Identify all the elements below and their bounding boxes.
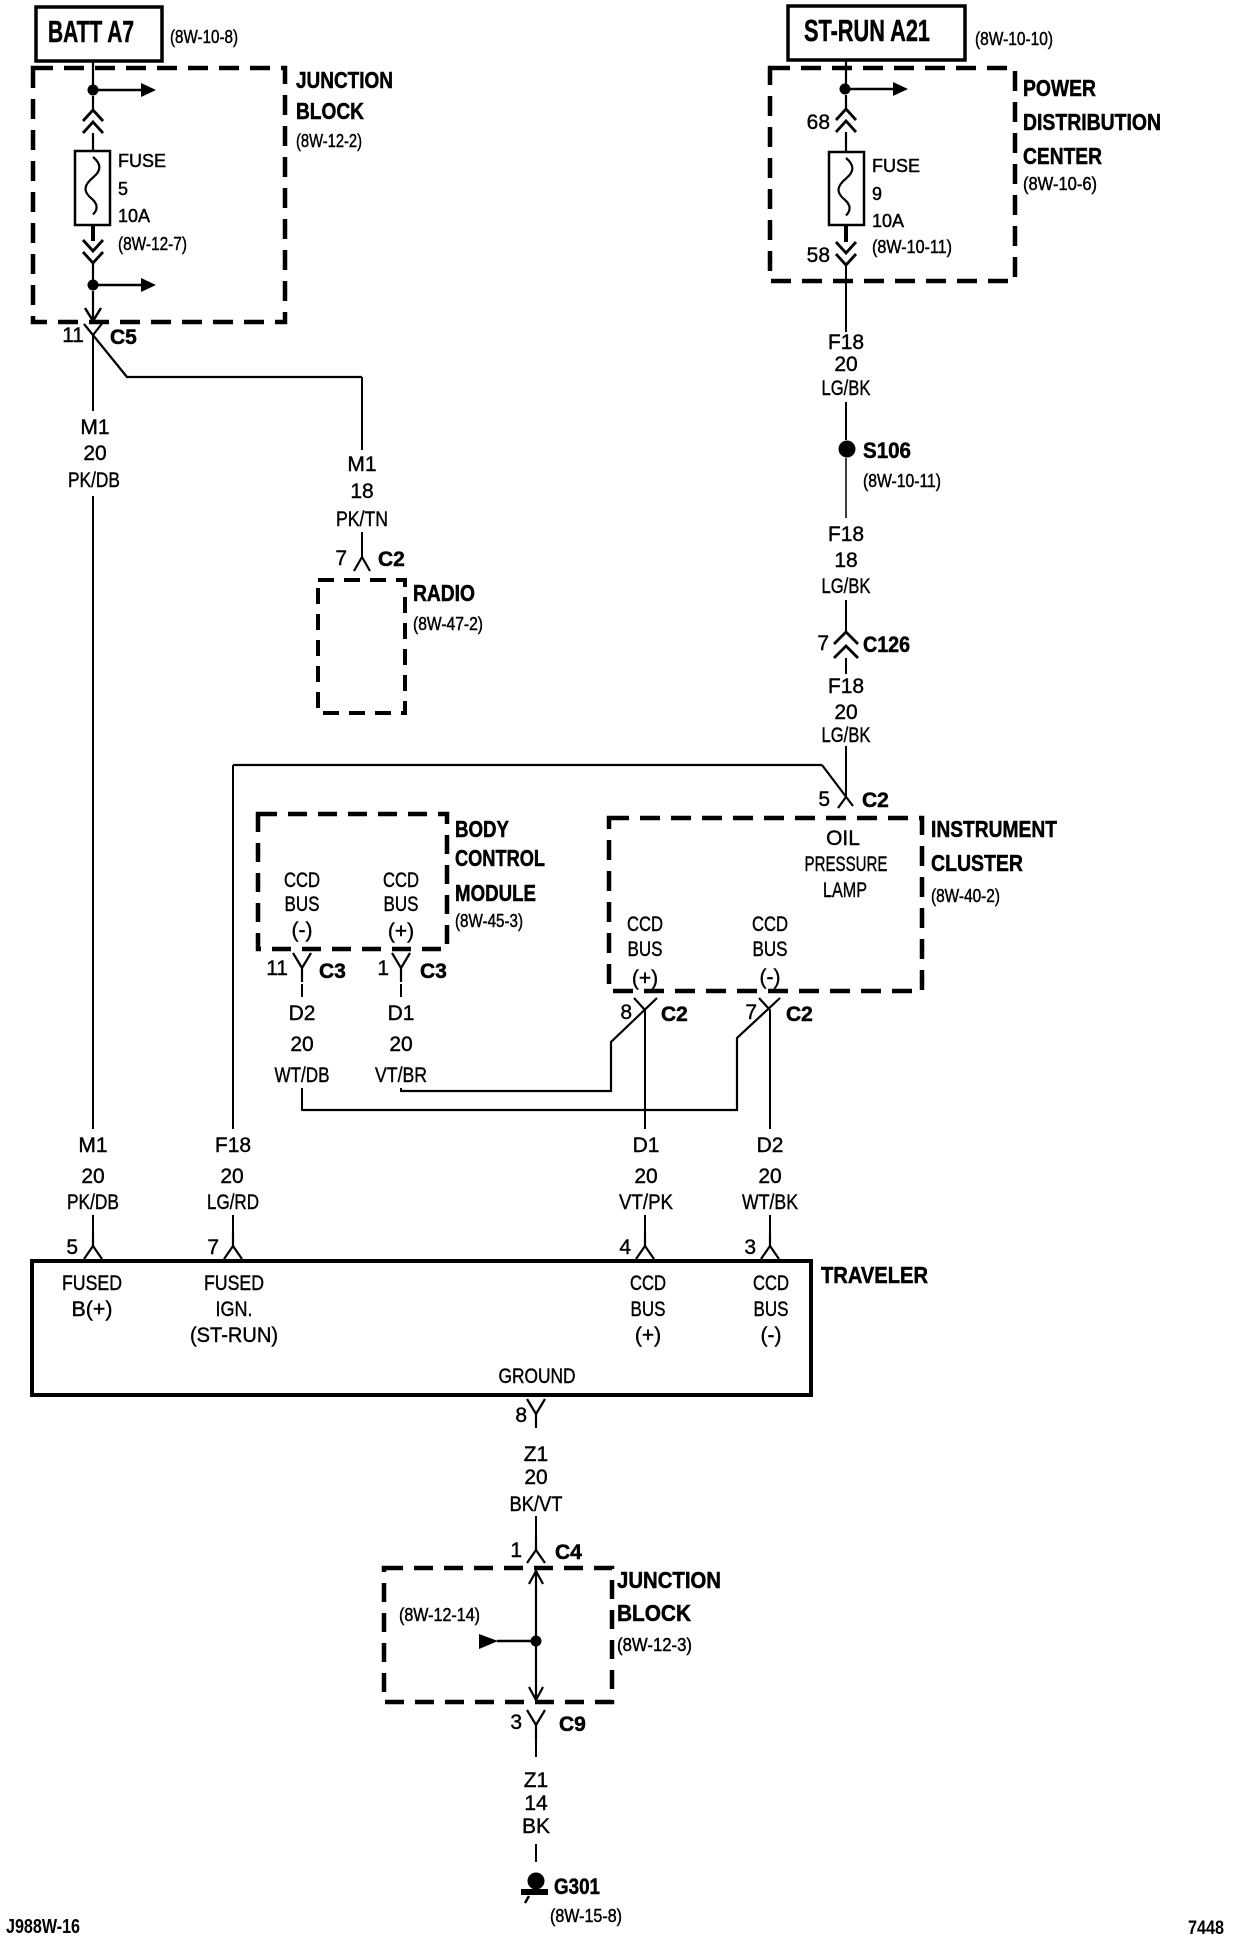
junction block (bottom) dashed outline: [384, 1568, 612, 1702]
wire: [845, 458, 847, 518]
body control module title: [455, 816, 545, 931]
svg-text:7: 7: [335, 547, 347, 570]
svg-text:CENTER: CENTER: [1023, 143, 1102, 169]
svg-text:C2: C2: [378, 548, 405, 571]
wire with exit arrowhead: [85, 291, 101, 321]
svg-text:20: 20: [634, 1165, 657, 1188]
svg-text:(8W-12-2): (8W-12-2): [296, 131, 362, 151]
svg-text:LG/BK: LG/BK: [822, 724, 871, 747]
wire from BATT A7 into junction block: [92, 61, 94, 85]
wire stubs below C3 pins: [301, 984, 303, 997]
svg-text:(8W-12-14): (8W-12-14): [399, 1605, 480, 1625]
wire: [535, 1738, 537, 1757]
connector chevrons (up): [836, 109, 856, 132]
svg-text:LG/RD: LG/RD: [207, 1191, 259, 1214]
wire F18 out of PDC: [845, 265, 847, 332]
svg-text:20: 20: [524, 1466, 547, 1489]
svg-text:CCD: CCD: [752, 913, 788, 936]
svg-text:20: 20: [83, 442, 106, 465]
svg-text:CCD: CCD: [627, 913, 663, 936]
BCM CCD BUS (+) label: [383, 869, 419, 943]
CCD bus wire (+): BCM pin1 to IC pin 8: [401, 998, 657, 1092]
svg-text:LG/BK: LG/BK: [822, 377, 871, 400]
svg-text:CCD: CCD: [753, 1272, 789, 1295]
svg-text:RADIO: RADIO: [413, 580, 475, 606]
wire stub + traveler pin 4: [619, 1215, 654, 1259]
wire: [361, 532, 363, 557]
svg-text:10A: 10A: [118, 206, 150, 226]
svg-text:58: 58: [807, 244, 830, 267]
wire label D2 20 WT/BK: [742, 1134, 798, 1214]
svg-text:PK/DB: PK/DB: [68, 469, 120, 492]
svg-text:BUS: BUS: [285, 893, 320, 916]
svg-text:BUS: BUS: [628, 938, 663, 961]
svg-text:F18: F18: [828, 675, 864, 698]
svg-text:5: 5: [818, 788, 830, 811]
wire stub + traveler pin 3: [744, 1215, 779, 1259]
svg-text:9: 9: [872, 184, 882, 204]
svg-text:BLOCK: BLOCK: [617, 1600, 691, 1626]
svg-text:(8W-10-10): (8W-10-10): [975, 29, 1053, 49]
svg-text:14: 14: [524, 1792, 548, 1815]
svg-text:20: 20: [389, 1033, 412, 1056]
wire: [845, 600, 847, 632]
radio dashed outline: [318, 580, 405, 713]
wire label Z1 14 BK: [522, 1769, 550, 1838]
junction node with feed arrow: [88, 83, 157, 97]
wire label Z1 20 BK/VT: [510, 1443, 563, 1516]
wire: [92, 96, 94, 111]
svg-text:11: 11: [266, 957, 288, 980]
wire label M1 18 PK/TN: [336, 453, 388, 531]
svg-text:CCD: CCD: [630, 1272, 666, 1295]
svg-text:JUNCTION: JUNCTION: [296, 67, 393, 93]
svg-text:BATT A7: BATT A7: [48, 14, 134, 49]
svg-text:INSTRUMENT: INSTRUMENT: [931, 816, 1057, 842]
svg-text:CCD: CCD: [383, 869, 419, 892]
wire label F18 20 LG/BK: [822, 331, 871, 400]
svg-text:PK/DB: PK/DB: [67, 1191, 119, 1214]
svg-text:J988W-16: J988W-16: [6, 1916, 80, 1938]
traveler FUSED B(+) label: [62, 1272, 122, 1321]
svg-text:(+): (+): [632, 967, 658, 990]
svg-text:MODULE: MODULE: [455, 880, 536, 906]
junction node with feed arrow: [88, 278, 157, 292]
ground G301: [521, 1873, 622, 1927]
svg-text:C2: C2: [786, 1003, 813, 1026]
radio title: [413, 580, 483, 634]
wire branch from C5 to radio: [126, 377, 362, 450]
body control module dashed outline: [258, 814, 447, 949]
svg-text:F18: F18: [215, 1134, 251, 1157]
wire: [92, 133, 94, 152]
power source box ST-RUN A21: [788, 6, 965, 60]
svg-text:G301: G301: [554, 1874, 600, 1899]
junction block (top) dashed outline: [33, 68, 285, 322]
svg-text:(8W-10-6): (8W-10-6): [1023, 174, 1097, 194]
wire D2 from C2 pin 7 down: [769, 1010, 771, 1129]
connector C2 pin 5 (instrument cluster): [818, 765, 889, 812]
svg-text:LAMP: LAMP: [823, 879, 867, 902]
svg-text:D1: D1: [633, 1134, 660, 1157]
IC CCD BUS (+) label: [627, 913, 663, 990]
junction node with feed arrow: [479, 1634, 542, 1649]
svg-text:20: 20: [81, 1165, 104, 1188]
svg-text:1: 1: [510, 1539, 522, 1562]
svg-text:FUSED: FUSED: [62, 1272, 122, 1295]
connector C3 pin 11: [266, 953, 346, 983]
down arrowhead: [529, 1687, 543, 1700]
svg-text:D2: D2: [289, 1002, 316, 1025]
junction block (bottom) title: [617, 1567, 721, 1655]
svg-text:C2: C2: [661, 1003, 688, 1026]
traveler box: [32, 1261, 811, 1395]
svg-text:(8W-15-8): (8W-15-8): [550, 1906, 622, 1926]
svg-text:18: 18: [350, 480, 373, 503]
svg-text:OIL: OIL: [826, 827, 860, 850]
svg-text:C9: C9: [559, 1713, 586, 1736]
svg-text:M1: M1: [80, 416, 109, 439]
svg-text:(-): (-): [761, 1324, 782, 1347]
thick stub below fuse: [844, 225, 848, 242]
connector C2 pin 7 (radio): [335, 547, 405, 571]
svg-text:CLUSTER: CLUSTER: [931, 850, 1023, 876]
fuse 5 symbol: [75, 151, 110, 225]
svg-text:3: 3: [510, 1711, 522, 1734]
svg-text:BK: BK: [522, 1815, 550, 1838]
svg-text:CCD: CCD: [284, 869, 320, 892]
wire label M1 20 PK/DB (upper): [68, 416, 120, 492]
svg-text:8: 8: [515, 1404, 527, 1427]
svg-text:(ST-RUN): (ST-RUN): [190, 1324, 278, 1347]
svg-text:BK/VT: BK/VT: [510, 1493, 563, 1516]
connector C2 pin 8: [620, 998, 688, 1026]
connector C3 pin 1: [377, 953, 447, 983]
wire: [845, 95, 847, 110]
wire from ST-RUN into PDC: [845, 60, 847, 84]
svg-text:M1: M1: [347, 453, 376, 476]
svg-text:7448: 7448: [1188, 1918, 1224, 1939]
connector chevrons (down): [836, 242, 856, 265]
svg-text:7: 7: [817, 632, 829, 655]
wire label D1 20 VT/PK: [619, 1134, 673, 1214]
junction node with feed arrow: [840, 82, 909, 96]
svg-text:FUSE: FUSE: [118, 151, 166, 171]
svg-text:F18: F18: [828, 523, 864, 546]
connector C9 pin 3: [510, 1710, 586, 1739]
connector chevrons (down): [83, 240, 103, 263]
svg-text:(8W-12-3): (8W-12-3): [617, 1635, 692, 1655]
instrument cluster dashed outline: [609, 818, 922, 991]
svg-text:(8W-40-2): (8W-40-2): [931, 886, 1000, 906]
svg-text:BUS: BUS: [631, 1298, 666, 1321]
svg-text:(8W-12-7): (8W-12-7): [118, 234, 187, 254]
svg-text:18: 18: [834, 549, 857, 572]
junction block title: [296, 67, 393, 151]
connector C5: [84, 321, 137, 377]
svg-text:(8W-10-11): (8W-10-11): [863, 471, 941, 491]
svg-text:1: 1: [377, 957, 389, 980]
svg-text:C3: C3: [319, 960, 346, 983]
svg-text:7: 7: [207, 1236, 219, 1259]
svg-text:C5: C5: [110, 326, 137, 349]
up arrowhead: [529, 1571, 543, 1584]
svg-text:LG/BK: LG/BK: [822, 575, 871, 598]
svg-text:11: 11: [62, 324, 84, 347]
svg-text:M1: M1: [78, 1134, 107, 1157]
wire label F18 20 LG/BK: [822, 675, 871, 747]
svg-text:DISTRIBUTION: DISTRIBUTION: [1023, 109, 1161, 135]
svg-text:BLOCK: BLOCK: [296, 98, 364, 124]
wire stub + traveler pin 7: [207, 1215, 242, 1259]
wire: [535, 1516, 537, 1538]
svg-text:PK/TN: PK/TN: [336, 508, 388, 531]
svg-text:POWER: POWER: [1023, 75, 1096, 101]
svg-text:IGN.: IGN.: [216, 1298, 253, 1321]
traveler FUSED IGN. (ST-RUN) label: [190, 1272, 278, 1347]
svg-text:Z1: Z1: [524, 1769, 549, 1792]
svg-text:BUS: BUS: [754, 1298, 789, 1321]
svg-text:CONTROL: CONTROL: [455, 845, 545, 871]
wire D1 from C2 pin 8 down: [644, 1010, 646, 1129]
svg-text:(+): (+): [388, 920, 414, 943]
svg-text:ST-RUN A21: ST-RUN A21: [804, 13, 930, 48]
connector C4 pin 1: [510, 1537, 582, 1564]
svg-text:D1: D1: [388, 1002, 415, 1025]
wire label D2 20 WT/DB: [275, 1002, 330, 1087]
svg-text:C126: C126: [863, 632, 910, 657]
svg-text:(+): (+): [635, 1324, 661, 1347]
long wire M1 to traveler: [92, 496, 94, 1129]
power distribution center title: [1023, 75, 1161, 194]
svg-text:20: 20: [220, 1165, 243, 1188]
wire: [845, 402, 847, 440]
svg-text:WT/DB: WT/DB: [275, 1064, 330, 1087]
CCD bus wire (-): BCM pin11 to IC pin 7: [302, 998, 780, 1111]
svg-text:BODY: BODY: [455, 816, 509, 842]
svg-text:VT/BR: VT/BR: [375, 1064, 427, 1087]
traveler pin 8 connector: [515, 1399, 545, 1428]
svg-text:JUNCTION: JUNCTION: [617, 1567, 721, 1593]
splice S106: [839, 438, 942, 491]
svg-text:(8W-45-3): (8W-45-3): [455, 911, 523, 931]
svg-text:(-): (-): [292, 919, 313, 942]
instrument cluster title: [931, 816, 1057, 906]
svg-text:4: 4: [619, 1236, 631, 1259]
svg-text:3: 3: [744, 1236, 756, 1259]
IC CCD BUS (-) label: [752, 913, 788, 989]
wire label D1 20 VT/BR: [375, 1002, 427, 1087]
wire through junction block: [535, 1570, 537, 1700]
wire label F18 20 LG/RD: [207, 1134, 259, 1214]
wire: [535, 1844, 537, 1862]
svg-text:S106: S106: [863, 438, 911, 463]
wire label M1 20 PK/DB (lower): [67, 1134, 119, 1214]
svg-text:10A: 10A: [872, 211, 904, 231]
svg-text:Z1: Z1: [524, 1443, 549, 1466]
branch wire F18 to traveler (horizontal): [233, 765, 822, 1129]
svg-text:20: 20: [758, 1165, 781, 1188]
svg-text:PRESSURE: PRESSURE: [805, 853, 888, 876]
svg-text:(8W-10-11): (8W-10-11): [872, 237, 952, 257]
oil pressure lamp label: [805, 827, 888, 902]
svg-text:GROUND: GROUND: [499, 1365, 576, 1388]
svg-text:(8W-10-8): (8W-10-8): [170, 27, 238, 47]
thick stub below fuse: [91, 225, 95, 241]
svg-text:(-): (-): [760, 966, 781, 989]
wire label F18 18 LG/BK: [822, 523, 871, 598]
wire stub + traveler pin 5: [66, 1215, 102, 1259]
svg-text:(8W-47-2): (8W-47-2): [413, 614, 483, 634]
traveler CCD BUS (+) label: [630, 1272, 666, 1347]
fuse 9 symbol: [829, 152, 864, 225]
svg-text:WT/BK: WT/BK: [742, 1191, 798, 1214]
connector chevrons (up): [83, 110, 103, 133]
svg-text:D2: D2: [757, 1134, 784, 1157]
svg-text:C4: C4: [555, 1541, 582, 1564]
svg-text:FUSE: FUSE: [872, 156, 920, 176]
svg-text:TRAVELER: TRAVELER: [821, 1262, 928, 1288]
svg-text:20: 20: [290, 1033, 313, 1056]
power source box BATT A7: [36, 7, 162, 61]
wire: [92, 263, 94, 281]
svg-text:C3: C3: [420, 960, 447, 983]
svg-text:FUSED: FUSED: [204, 1272, 264, 1295]
power distribution center dashed outline: [770, 68, 1015, 281]
svg-text:5: 5: [66, 1236, 78, 1259]
svg-text:5: 5: [118, 179, 128, 199]
fuse 5 labels: [118, 151, 187, 254]
svg-text:8: 8: [620, 1001, 632, 1024]
svg-text:BUS: BUS: [753, 938, 788, 961]
svg-text:20: 20: [834, 353, 857, 376]
svg-text:B(+): B(+): [72, 1298, 113, 1321]
fuse 9 labels: [872, 156, 952, 257]
svg-text:7: 7: [745, 1001, 757, 1024]
svg-text:68: 68: [807, 111, 830, 134]
wire into instrument cluster: [845, 746, 847, 797]
connector C2 pin 7: [745, 998, 813, 1026]
connector C126 pin 7: [817, 632, 910, 658]
svg-text:F18: F18: [828, 331, 864, 354]
traveler CCD BUS (-) label: [753, 1272, 789, 1347]
svg-text:VT/PK: VT/PK: [619, 1191, 673, 1214]
svg-text:C2: C2: [862, 789, 889, 812]
wire: [845, 658, 847, 674]
svg-text:20: 20: [834, 701, 857, 724]
svg-text:BUS: BUS: [384, 893, 419, 916]
wire M1 down from C5: [92, 335, 94, 411]
BCM CCD BUS (-) label: [284, 869, 320, 942]
